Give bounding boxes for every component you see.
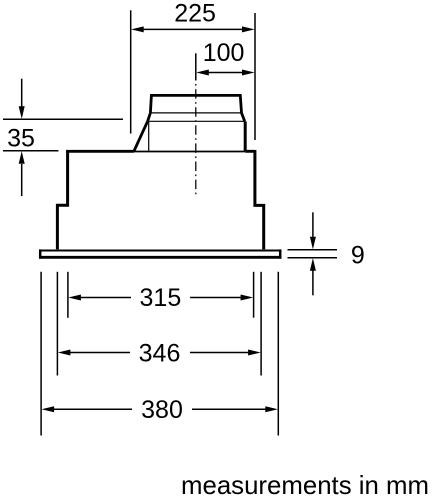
dim 225 line <box>142 28 244 30</box>
flange right edge <box>279 249 282 258</box>
dim 100 tick at centerline <box>195 53 197 80</box>
dim 346 ext line left <box>56 272 58 376</box>
dim 35 arrow bottom <box>21 164 23 196</box>
svg-text:35: 35 <box>7 124 35 152</box>
svg-text:346: 346 <box>139 340 181 368</box>
dim 315 arrow right <box>241 295 254 301</box>
body top right step <box>245 150 255 153</box>
svg-text:100: 100 <box>203 39 245 67</box>
dim 315 ext line left <box>67 272 69 318</box>
dim 225 ext line left <box>130 10 132 133</box>
upper box left side <box>57 150 67 250</box>
dim 315 ext line right <box>253 272 255 318</box>
dim 346 arrow left <box>58 350 71 356</box>
dim 225 arrow left <box>131 26 144 32</box>
collar shoulder right <box>242 113 245 121</box>
chimney left slant <box>134 121 148 151</box>
chimney inner edge <box>148 121 150 151</box>
dim 100 arrow right <box>242 70 255 76</box>
svg-text:315: 315 <box>140 284 182 312</box>
dim 35 ext line bottom <box>3 150 58 152</box>
dim 100 line <box>207 72 244 74</box>
dim 100 arrow left <box>196 70 209 76</box>
collar shoulder left <box>148 113 151 121</box>
dim 315 line <box>79 297 131 299</box>
dim 35 arrow top <box>21 79 23 108</box>
dim 380 arrow right <box>265 406 278 412</box>
dim 380 ext line right <box>277 272 279 436</box>
svg-text:225: 225 <box>174 0 216 28</box>
dim 346 arrow right <box>248 350 261 356</box>
duct collar top rectangle <box>150 95 241 113</box>
collar joint line lower <box>148 120 245 122</box>
flange bottom edge <box>39 256 282 259</box>
chimney right side <box>244 121 247 151</box>
collar joint line upper <box>150 112 241 114</box>
svg-text:380: 380 <box>141 396 183 424</box>
dim 380 arrow left <box>42 406 55 412</box>
svg-text:9: 9 <box>351 242 365 270</box>
dim 225 arrow right <box>242 26 255 32</box>
body top thin line <box>134 151 245 153</box>
dim 9 ext line top <box>288 249 338 251</box>
flange left edge <box>39 249 42 258</box>
dim 9 arrow bottom <box>312 269 314 296</box>
svg-text:measurements in mm: measurements in mm <box>181 472 429 500</box>
bottom flange fill <box>39 249 282 258</box>
flange top edge <box>39 249 282 251</box>
dim 346 ext line right <box>260 272 262 376</box>
center line (dash-dot) <box>195 84 197 196</box>
dim 346 line <box>69 352 131 354</box>
dim 35 ext line top <box>3 118 123 120</box>
body top left thick <box>66 150 134 153</box>
upper box right side <box>255 150 264 250</box>
dim 9 ext line bottom <box>288 257 338 259</box>
dim 315 arrow left <box>68 295 81 301</box>
dim 380 ext line left <box>40 272 42 436</box>
dim 380 line <box>52 408 132 410</box>
dim 225/100 ext line right <box>254 13 256 140</box>
dim 9 arrow top <box>312 212 314 239</box>
